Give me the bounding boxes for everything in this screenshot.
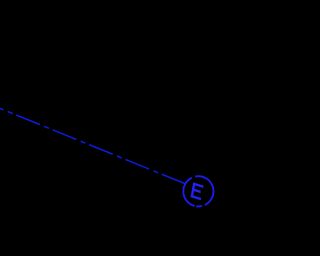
grid label E [191, 182, 204, 200]
grid bubble circle: long arc left [183, 178, 194, 206]
grid centerline (dash-dot) [0, 108, 187, 184]
grid bubble circle: short dash bottom [196, 205, 202, 207]
grid bubble circle: long arc top-right [195, 176, 213, 205]
